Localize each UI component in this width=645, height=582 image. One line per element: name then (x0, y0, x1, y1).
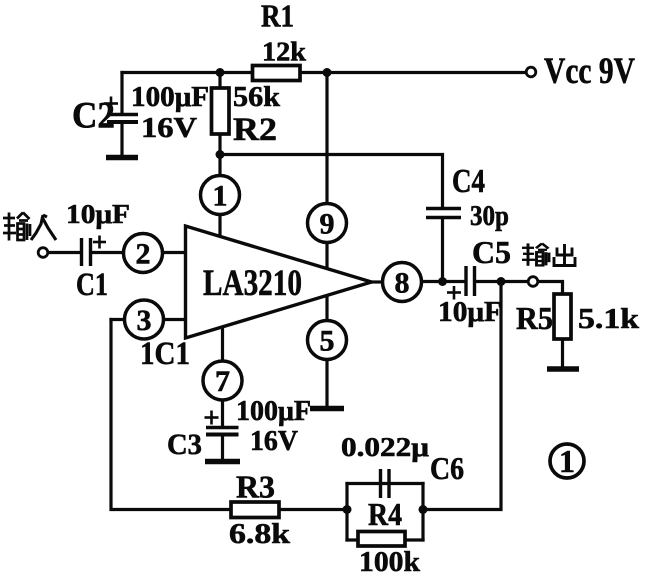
svg-text:16V: 16V (250, 426, 298, 457)
wire: op-amp bottom edge to pin 5 (325, 296, 328, 322)
junction dot at pin9 branch on rail (323, 68, 332, 77)
wire: pin 7 down to C3 (221, 400, 224, 426)
resistor R3 body 6.8k (231, 502, 279, 518)
svg-text:12k: 12k (262, 37, 306, 67)
svg-text:C1: C1 (76, 267, 108, 303)
terminal: Vcc open circle (526, 67, 536, 77)
wire: R5 bottom to ground (561, 339, 564, 366)
resistor R5 body 5.1k (554, 294, 571, 339)
pin 2 circle (124, 234, 163, 273)
svg-text:1: 1 (213, 180, 228, 213)
svg-text:100μF: 100μF (131, 82, 209, 113)
svg-text:10μF: 10μF (66, 199, 130, 229)
svg-text:5.1k: 5.1k (578, 303, 640, 335)
svg-text:R4: R4 (368, 496, 402, 532)
svg-text:5: 5 (320, 325, 335, 358)
svg-text:100μF: 100μF (236, 396, 311, 427)
capacitor C3 plates (206, 428, 239, 435)
wire: pin 2 to op-amp left edge (163, 251, 187, 254)
wire: C2 branch vertical (120, 73, 123, 114)
capacitor C5 plates (466, 266, 475, 296)
junction dot at R4 network left node (343, 505, 352, 514)
junction dot at R2 bottom node (216, 150, 225, 159)
svg-text:R5: R5 (516, 300, 553, 336)
svg-text:Vcc 9V: Vcc 9V (544, 51, 635, 92)
wire: C1 to pin 2 (91, 251, 124, 254)
junction dot at C4/pin8 output node (438, 277, 447, 286)
svg-text:56k: 56k (233, 82, 280, 113)
svg-text:7: 7 (215, 365, 230, 398)
capacitor C6 plates 0.022u (381, 469, 390, 498)
wire: pin 1 to op-amp top edge (218, 215, 221, 237)
wire: R2 top connection (218, 73, 221, 89)
svg-text:2: 2 (136, 238, 151, 271)
capacitor C1 plates (82, 238, 91, 266)
svg-text:R1: R1 (261, 0, 294, 34)
capacitor C3 polarity plus (205, 411, 219, 425)
wire: C4 bottom down to output node (441, 218, 444, 282)
label input (Chinese ru char) (31, 215, 56, 240)
capacitor C5 polarity plus (447, 286, 461, 300)
wire: op-amp apex to pin 8 (372, 280, 383, 283)
svg-text:0.022μ: 0.022μ (341, 432, 429, 462)
svg-text:8: 8 (395, 267, 410, 300)
capacitor C2 plates (107, 115, 138, 156)
svg-text:3: 3 (137, 304, 152, 337)
wire: R2 bottom to junction to pin 1 (218, 134, 221, 176)
pin 9 circle (308, 204, 347, 243)
junction dot at R2 top on rail (216, 68, 225, 77)
svg-text:C2: C2 (72, 96, 115, 137)
svg-text:1: 1 (559, 443, 575, 479)
capacitor C4 plates 30p (426, 209, 461, 218)
wire: pin 5 down to ground (325, 360, 328, 407)
svg-text:30p: 30p (470, 201, 509, 232)
wire: pin 3 to left feedback wire (111, 318, 125, 321)
svg-text:16V: 16V (141, 113, 197, 144)
svg-text:C4: C4 (452, 163, 485, 200)
junction dot at C5/feedback node (497, 277, 506, 286)
resistor R4 body 100k (358, 532, 405, 547)
pin 7 circle (203, 361, 242, 400)
wire: C5 to output terminal and R5 (475, 280, 529, 283)
wire: feedback vertical from output node down to R4 network (423, 282, 501, 510)
wire: op-amp bottom edge to pin 7 (221, 327, 224, 361)
wire: left feedback vertical and bottom run to R3 (111, 320, 347, 510)
wire: horizontal from R2 bottom junction to C4 (220, 155, 443, 209)
svg-text:R2: R2 (233, 112, 277, 148)
label output (Chinese shu char) (522, 243, 549, 265)
pin 1 circle (201, 176, 240, 215)
svg-text:6.8k: 6.8k (229, 518, 291, 550)
svg-text:1C1: 1C1 (140, 336, 190, 372)
wire: pin 9 to op-amp top edge (325, 243, 328, 268)
terminal: output open circle (528, 277, 538, 287)
pin 3 circle (125, 300, 164, 339)
ground below pin 5 (310, 406, 344, 412)
wire: pin 9 vertical from rail (325, 73, 328, 204)
pin 5 circle (308, 321, 347, 360)
wire: top supply rail from C2 to Vcc terminal (122, 71, 526, 74)
svg-text:C3: C3 (167, 428, 202, 461)
ground below C3 (205, 459, 240, 465)
wire: pin 8 to C4 junction and C5 (422, 280, 466, 283)
svg-text:C6: C6 (430, 450, 464, 486)
svg-text:R3: R3 (236, 469, 275, 505)
svg-text:100k: 100k (359, 546, 421, 578)
wire: pin 3 to op-amp left edge (164, 318, 187, 321)
svg-text:10μF: 10μF (438, 297, 502, 328)
op-amp U1 LA3210 triangle (186, 226, 372, 338)
figure number circled 1 (550, 444, 584, 478)
wire: input terminal to C1 (48, 251, 81, 254)
capacitor C2 polarity plus (104, 97, 118, 111)
pin 8 circle (383, 263, 422, 302)
resistor R1 body 12k (253, 66, 301, 81)
wire: C3 bottom plate to ground (221, 435, 224, 458)
junction dot at R4 network right node (419, 505, 428, 514)
ground below C2 (106, 155, 138, 161)
label output (Chinese chu char) (554, 244, 575, 266)
ground below R5 (547, 366, 579, 372)
svg-text:9: 9 (320, 208, 335, 241)
svg-text:C5: C5 (472, 234, 511, 270)
wire: R4/C6 parallel network rectangle (347, 482, 423, 485)
svg-text:LA3210: LA3210 (203, 263, 302, 304)
resistor R2 body 56k (212, 88, 230, 134)
label input (Chinese shu char) (3, 213, 30, 241)
capacitor C1 polarity plus (93, 236, 106, 249)
terminal: input open circle (38, 248, 48, 258)
